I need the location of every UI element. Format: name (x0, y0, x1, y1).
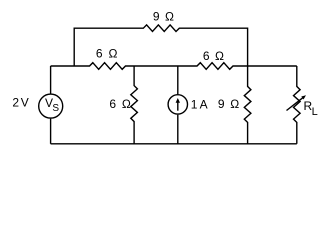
svg-text:Ω: Ω (122, 97, 131, 111)
svg-text:Ω: Ω (230, 97, 239, 111)
svg-text:V: V (21, 96, 29, 110)
svg-text:9: 9 (153, 10, 160, 24)
svg-text:6: 6 (109, 97, 116, 111)
svg-text:S: S (52, 103, 59, 114)
svg-text:Ω: Ω (109, 47, 118, 61)
svg-text:2: 2 (12, 96, 19, 110)
svg-text:Ω: Ω (165, 10, 174, 24)
svg-text:1: 1 (191, 98, 198, 112)
svg-text:6: 6 (96, 47, 103, 61)
svg-text:L: L (312, 106, 318, 118)
svg-text:9: 9 (218, 97, 225, 111)
svg-text:6: 6 (203, 49, 210, 63)
svg-text:A: A (200, 98, 208, 112)
svg-text:Ω: Ω (215, 49, 224, 63)
